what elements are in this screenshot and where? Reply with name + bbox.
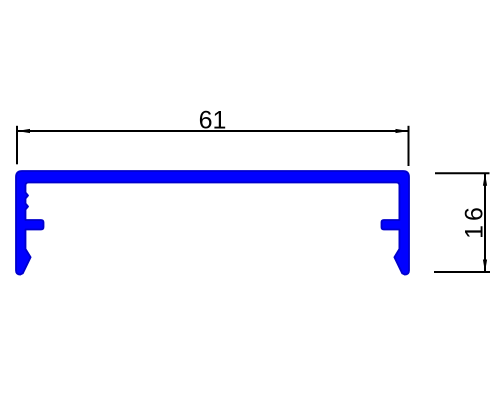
dimension 16: up arrow	[483, 173, 487, 186]
dimension 16: dimension line	[484, 173, 486, 272]
dimension 16: top extension line	[435, 172, 490, 174]
dimension 61: right extension line	[408, 126, 410, 166]
dimension 61: left extension line	[16, 126, 18, 165]
dimension 16: bottom extension line	[434, 271, 490, 273]
dimension 16: down arrow	[483, 260, 487, 273]
dimension 61: right arrow	[396, 129, 409, 133]
svg-text:61: 61	[199, 107, 227, 135]
dimension 61: left arrow	[17, 129, 30, 133]
profile cover cap cross-section	[16, 171, 409, 275]
dimension 61: dimension line	[17, 130, 409, 132]
svg-text:16: 16	[461, 203, 489, 239]
